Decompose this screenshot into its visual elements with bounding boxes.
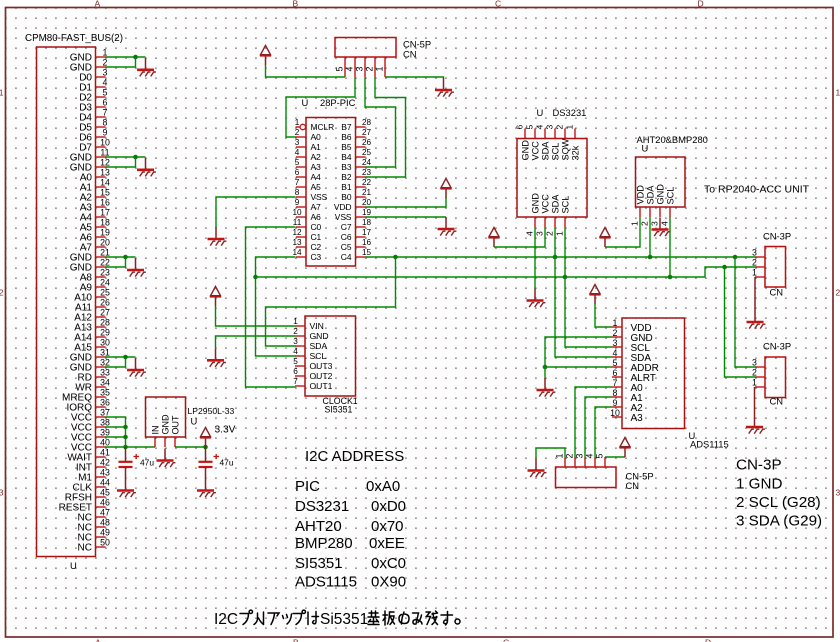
wire ADS1115 A1 to CN-5P pin3 [585, 397, 612, 457]
svg-text:B1: B1 [341, 182, 352, 192]
svg-text:47: 47 [100, 508, 110, 518]
power 3.3V at PIC VDD [440, 179, 451, 199]
svg-text:1 GND: 1 GND [736, 476, 782, 493]
wire CN-5P bottom pin5 to 3.3V [605, 456, 625, 458]
wire SI5351 GND to ground [216, 336, 296, 348]
svg-text:SDA: SDA [645, 185, 655, 205]
svg-text:1: 1 [836, 88, 840, 98]
svg-text:1: 1 [295, 118, 300, 127]
svg-text:A7: A7 [311, 202, 322, 212]
svg-text:36: 36 [100, 398, 110, 408]
svg-text:40: 40 [100, 438, 110, 448]
svg-text:37: 37 [100, 408, 110, 418]
svg-text:28P-PIC: 28P-PIC [320, 97, 356, 108]
svg-text:50: 50 [100, 538, 110, 548]
ground CN-3P upper pin1 [747, 310, 766, 329]
svg-text:5: 5 [525, 125, 535, 130]
svg-text:47u: 47u [220, 458, 234, 468]
LP2950 pin stubs [155, 437, 175, 447]
svg-text:5: 5 [595, 454, 605, 459]
ground PIC VSS pin8 [208, 227, 227, 246]
svg-text:5: 5 [103, 88, 108, 98]
svg-text:SDA: SDA [550, 194, 560, 214]
ground GND pins 21-22 [127, 258, 146, 277]
svg-text:1: 1 [565, 125, 575, 130]
svg-text:CN-3P: CN-3P [763, 341, 791, 352]
svg-text:22: 22 [362, 178, 372, 187]
svg-text:DS3231: DS3231 [295, 498, 349, 515]
svg-text:B5: B5 [341, 142, 352, 152]
svg-text:8: 8 [103, 118, 108, 128]
svg-text:11: 11 [293, 218, 302, 227]
svg-text:A5: A5 [311, 182, 322, 192]
svg-text:16: 16 [100, 198, 110, 208]
svg-text:2: 2 [752, 258, 757, 268]
svg-text:GND: GND [520, 140, 530, 161]
svg-text:B3: B3 [341, 162, 352, 172]
svg-text:32k: 32k [570, 145, 580, 160]
svg-text:CN: CN [770, 396, 784, 407]
svg-text:23: 23 [100, 268, 110, 278]
wire SDA bus [366, 256, 756, 258]
ground CN-5P top pin1 [435, 78, 454, 97]
svg-text:7: 7 [103, 108, 108, 118]
junction OUT 3.3V [203, 445, 208, 450]
svg-text:A6: A6 [311, 212, 322, 222]
wire CN-5P pin1 to ground [385, 77, 444, 78]
svg-text:VDD: VDD [635, 185, 645, 205]
wire junction to ground [544, 367, 546, 378]
ground ADS1115 GND/ADDR [537, 378, 556, 397]
wire pin32 GND up to junction [106, 357, 126, 367]
wire PIC VSS pin8 to ground [216, 197, 296, 227]
wire 3.3V to AHT20 VDD [605, 217, 640, 247]
svg-text:1: 1 [752, 378, 757, 388]
power 3.3V at SI5351 VIN [210, 287, 221, 307]
junction SDA to lower CN-3P [733, 255, 738, 260]
svg-text:4: 4 [535, 125, 545, 130]
svg-text:3: 3 [613, 338, 618, 348]
svg-text:13: 13 [292, 238, 302, 247]
svg-text:IN: IN [150, 426, 160, 435]
svg-text:14: 14 [100, 178, 110, 188]
svg-text:SI5351: SI5351 [325, 405, 353, 415]
junction SCL to lower CN-3P [722, 265, 727, 270]
wire SDA to CN-3P lower pin3 [735, 257, 755, 367]
svg-text:43: 43 [100, 468, 110, 478]
svg-text:GND: GND [530, 193, 540, 214]
wire ADS1115 A0 to CN-5P pin2 [575, 387, 612, 457]
ground input cap [117, 479, 136, 498]
svg-text:GND: GND [160, 414, 170, 435]
svg-text:C2: C2 [311, 242, 322, 252]
wire CN-5P pin3 to PIC B3 [365, 77, 396, 167]
svg-text:6: 6 [515, 125, 525, 130]
wire PIC VSS pin19 to ground [366, 216, 447, 218]
svg-text:SDA: SDA [310, 341, 328, 351]
svg-text:C7: C7 [341, 222, 352, 232]
svg-text:26: 26 [362, 138, 372, 147]
svg-text:2: 2 [555, 125, 565, 130]
svg-text:4: 4 [293, 347, 298, 356]
svg-text:19: 19 [100, 228, 110, 238]
svg-text:24: 24 [362, 158, 372, 167]
svg-text:6: 6 [103, 98, 108, 108]
svg-text:2: 2 [545, 231, 555, 236]
svg-text:U: U [302, 97, 309, 108]
regulator U LP2950L-33 [146, 397, 186, 437]
svg-text:A2: A2 [311, 152, 322, 162]
svg-text:CN-3P: CN-3P [736, 457, 782, 474]
svg-text:A0: A0 [311, 132, 322, 142]
U CPM80 pins 1-50 (stubs, numbers, names) [59, 48, 110, 554]
svg-text:SDA: SDA [540, 141, 550, 161]
wire 3.3V to CN-5P pin5 [266, 65, 346, 77]
svg-text:12: 12 [292, 228, 302, 237]
wire 3.3V to DS3231 VCC [494, 227, 545, 247]
svg-text:2: 2 [752, 368, 757, 378]
junction SDA at x395 [393, 255, 398, 260]
svg-text:42: 42 [100, 458, 110, 468]
svg-text:D: D [698, 0, 704, 9]
svg-text:BMP280: BMP280 [295, 535, 353, 552]
svg-text:3: 3 [752, 358, 757, 368]
svg-text:26: 26 [100, 298, 110, 308]
ground GND pins 11-12 [137, 158, 156, 177]
power 3.3V at CN-5P top [260, 46, 271, 66]
wire CN-5P pin2 to PIC B2 [366, 77, 406, 177]
ground GND pins 31-32 [127, 358, 146, 377]
svg-text:OUT1: OUT1 [310, 381, 333, 391]
svg-text:10: 10 [292, 208, 302, 217]
svg-text:2: 2 [640, 221, 650, 226]
junction SCL bus start [253, 275, 258, 280]
svg-text:1: 1 [555, 454, 565, 459]
CN-3P upper pins 3,2,1 [752, 248, 765, 278]
wire pin21 GND to ground [106, 256, 136, 258]
ground LP2950 GND pin [157, 449, 176, 468]
svg-text:12: 12 [100, 158, 110, 168]
IC U ADS1115 [622, 318, 685, 429]
wire SDA bus to ADS1115 SDA [555, 257, 612, 357]
svg-text:5: 5 [293, 357, 298, 366]
svg-text:NC: NC [78, 543, 92, 554]
CN-3P lower pins 3,2,1 [752, 358, 765, 388]
wire pin11 GND to ground [106, 156, 146, 158]
svg-text:I2C: I2C [214, 611, 238, 628]
svg-text:2: 2 [613, 328, 618, 338]
wire pin12 GND up to junction [106, 157, 136, 167]
svg-text:U: U [70, 560, 77, 571]
ground output cap [197, 479, 216, 498]
svg-text:0X90: 0X90 [371, 574, 406, 591]
svg-text:OUT2: OUT2 [310, 371, 333, 381]
junction pins31-32 GND [123, 355, 128, 360]
text I2C ADDRESS table [295, 448, 406, 591]
svg-text:B0: B0 [341, 192, 352, 202]
power 3.3V at CN-5P bottom [619, 438, 630, 458]
U PIC right pins 28-15 [334, 118, 372, 262]
svg-text:A4: A4 [311, 172, 322, 182]
wire VCC pin39 [106, 436, 126, 438]
svg-text:9: 9 [613, 398, 618, 408]
svg-text:OUT: OUT [170, 415, 180, 435]
U PIC left pins 1-14 [292, 118, 334, 262]
svg-text:CN: CN [626, 480, 640, 491]
svg-text:4: 4 [585, 454, 595, 459]
svg-text:1: 1 [613, 318, 618, 328]
svg-text:45: 45 [100, 488, 110, 498]
svg-text:AHT20: AHT20 [295, 518, 342, 535]
junction AHT20 SDA [648, 255, 653, 260]
svg-text:27: 27 [100, 308, 110, 318]
ground SI5351 GND [207, 348, 226, 367]
wire CN-5P bottom pin1 to ground [536, 448, 565, 459]
connector CN CN-5P top [335, 38, 396, 58]
svg-text:20: 20 [100, 238, 110, 248]
svg-text:4: 4 [613, 348, 618, 358]
svg-text:B6: B6 [341, 132, 352, 142]
svg-text:13: 13 [100, 168, 110, 178]
svg-text:LP2950L-33: LP2950L-33 [188, 406, 235, 416]
svg-text:3: 3 [295, 138, 300, 147]
svg-text:6: 6 [293, 367, 298, 376]
svg-text:18: 18 [100, 218, 110, 228]
wire ADS1115 GND down [545, 337, 612, 367]
wire CN-3P lower pin1 to ground [754, 387, 756, 415]
svg-text:17: 17 [100, 208, 110, 218]
svg-text:A1: A1 [311, 142, 322, 152]
power 3.3V at DS3231 VCC [488, 228, 499, 248]
svg-text:B2: B2 [341, 172, 352, 182]
svg-text:14: 14 [292, 248, 302, 257]
svg-text:2: 2 [836, 288, 840, 298]
svg-text:0xA0: 0xA0 [366, 478, 400, 495]
svg-text:SCL: SCL [560, 196, 570, 214]
wire pin2 GND up to junction [106, 57, 136, 67]
svg-text:39: 39 [100, 428, 110, 438]
svg-text:27: 27 [362, 128, 372, 137]
junction AHT20 SCL [668, 275, 673, 280]
svg-text:7: 7 [293, 377, 298, 386]
svg-text:0x70: 0x70 [371, 518, 404, 535]
CN-5P top pin stubs and numbers [335, 57, 386, 77]
svg-text:19: 19 [362, 208, 372, 217]
svg-text:4: 4 [103, 78, 108, 88]
svg-text:U: U [537, 107, 544, 118]
svg-text:4: 4 [295, 148, 300, 157]
svg-text:To RP2040-ACC UNIT: To RP2040-ACC UNIT [704, 184, 810, 196]
svg-text:3: 3 [545, 125, 555, 130]
wire SDA to SI5351 SDA [266, 257, 396, 346]
svg-text:1: 1 [0, 88, 4, 98]
svg-text:CN: CN [770, 287, 784, 298]
svg-text:C: C [495, 0, 501, 9]
svg-text:3: 3 [836, 488, 840, 498]
svg-text:D: D [705, 638, 711, 642]
svg-text:10: 10 [610, 408, 620, 418]
svg-text:4: 4 [660, 221, 670, 226]
svg-text:25: 25 [100, 288, 110, 298]
svg-text:4: 4 [525, 231, 535, 236]
text CN-3P pinout legend [736, 457, 822, 530]
wire DS3231 SCL to bus [564, 227, 566, 277]
svg-text:0xD0: 0xD0 [371, 498, 406, 515]
power 3.3V at regulator output [200, 428, 211, 448]
svg-text:3: 3 [535, 231, 545, 236]
svg-text:22: 22 [100, 258, 110, 268]
wire SCL bus to ADS1115 SCL [565, 277, 612, 347]
svg-text:1: 1 [375, 67, 385, 72]
junction VCC rail 2 [123, 435, 128, 440]
svg-text:PIC: PIC [295, 478, 320, 495]
wire PIC C0 to SI5351 OUT1 [246, 227, 296, 387]
svg-text:2: 2 [0, 288, 4, 298]
wire CN-5P pin4 to PIC A0 [286, 77, 355, 137]
svg-text:ADS1115: ADS1115 [690, 439, 729, 450]
DS3231 bottom pins 4-1 [525, 193, 571, 236]
svg-text:VSS: VSS [335, 212, 352, 222]
svg-text:CN: CN [403, 49, 417, 60]
svg-text:23: 23 [362, 168, 372, 177]
wire pin31 GND to ground [106, 356, 136, 358]
svg-text:5: 5 [335, 67, 345, 72]
svg-text:2: 2 [565, 454, 575, 459]
svg-text:38: 38 [100, 418, 110, 428]
ground GND pins 1-2 [137, 58, 156, 77]
svg-text:48: 48 [100, 518, 110, 528]
svg-text:8: 8 [295, 188, 300, 197]
svg-text:MCLR: MCLR [311, 122, 335, 132]
svg-text:35: 35 [100, 388, 110, 398]
wire SCL to CN-3P lower pin2 [725, 267, 756, 377]
svg-text:21: 21 [100, 248, 110, 258]
svg-text:DS3231: DS3231 [553, 107, 587, 118]
svg-text:U: U [642, 143, 649, 154]
svg-text:4: 4 [345, 67, 355, 72]
svg-text:18: 18 [362, 218, 372, 227]
svg-text:16: 16 [362, 238, 372, 247]
ground CN-5P bottom pin1 [528, 459, 547, 478]
capacitor C 47u output [199, 447, 220, 479]
svg-text:10: 10 [100, 138, 110, 148]
wire pin22 GND up to junction [106, 257, 126, 267]
svg-text:OUT3: OUT3 [310, 361, 333, 371]
svg-text:GND: GND [655, 184, 665, 205]
svg-text:41: 41 [100, 448, 110, 458]
svg-text:VSS: VSS [311, 192, 328, 202]
svg-text:7: 7 [613, 378, 618, 388]
svg-text:34: 34 [100, 378, 110, 388]
svg-text:1: 1 [103, 48, 108, 58]
svg-text:B: B [293, 0, 299, 9]
ground PIC VSS pin19 [438, 217, 457, 236]
svg-text:2 SCL (G28): 2 SCL (G28) [736, 494, 821, 511]
svg-text:3: 3 [355, 67, 365, 72]
svg-text:B4: B4 [341, 152, 352, 162]
connector CN CN-5P bottom [556, 467, 617, 488]
svg-text:3.3V: 3.3V [215, 425, 236, 436]
svg-text:I2C ADDRESS: I2C ADDRESS [305, 448, 404, 465]
note I2C pullup only on Si5351 board (Japanese) [214, 610, 460, 628]
svg-text:2: 2 [365, 67, 375, 72]
wire CN-3P upper pin1 to ground [754, 277, 756, 310]
wire 3.3V to PIC VDD pin20 [366, 198, 447, 207]
svg-text:46: 46 [100, 498, 110, 508]
svg-text:SI5351: SI5351 [295, 555, 343, 572]
svg-text:24: 24 [100, 278, 110, 288]
ground AHT20 GND [652, 218, 671, 237]
svg-text:31: 31 [100, 348, 110, 358]
CLOCK1 pins 1-7 [293, 317, 332, 391]
wire AHT20 SDA to bus [649, 217, 651, 257]
junction pins1-2 GND [133, 55, 138, 60]
wire 3.3V to ADS1115 VDD [595, 304, 612, 327]
wire ADS1115 ADDR to GND [545, 366, 612, 368]
junction DS3231 SCL [563, 275, 568, 280]
svg-text:33: 33 [100, 368, 110, 378]
svg-text:3: 3 [0, 488, 4, 498]
svg-text:20: 20 [362, 198, 372, 207]
svg-text:5: 5 [295, 158, 300, 167]
svg-text:GND: GND [310, 331, 329, 341]
svg-text:0xC0: 0xC0 [371, 555, 406, 572]
svg-text:9: 9 [103, 128, 108, 138]
svg-text:11: 11 [100, 148, 109, 158]
svg-text:2: 2 [103, 58, 108, 68]
svg-text:Si5351: Si5351 [320, 611, 368, 628]
svg-text:5: 5 [613, 358, 618, 368]
svg-text:15: 15 [362, 248, 372, 257]
wire SCL bus [256, 267, 756, 277]
wire LP2950 OUT to 3.3V [175, 446, 206, 448]
junction pins21-22 GND [123, 255, 128, 260]
wire VCC pin38 [106, 426, 126, 428]
svg-text:1: 1 [293, 317, 298, 326]
ground CN-3P lower pin1 [746, 415, 765, 434]
svg-text:6: 6 [295, 168, 300, 177]
svg-text:CN-3P: CN-3P [763, 231, 791, 242]
module CLOCK1 SI5351 [305, 316, 356, 396]
svg-text:VDD: VDD [334, 202, 352, 212]
svg-text:47u: 47u [140, 458, 154, 468]
svg-text:C4: C4 [341, 252, 352, 262]
junction VCC rail 3 [123, 445, 128, 450]
svg-text:VCC: VCC [540, 194, 550, 214]
svg-text:A3: A3 [311, 162, 322, 172]
power 3.3V at AHT20 VDD [599, 228, 610, 248]
svg-text:2: 2 [295, 128, 300, 137]
svg-text:A: A [95, 0, 101, 9]
svg-text:1: 1 [630, 221, 640, 226]
junction ADS GND-ADDR [543, 365, 548, 370]
capacitor C 47u input [119, 447, 140, 479]
wire AHT20 SCL to bus [669, 217, 671, 277]
ADS1115 pins 1-10 [610, 318, 659, 424]
svg-text:A: A [95, 638, 101, 642]
svg-text:3: 3 [293, 337, 298, 346]
svg-text:C5: C5 [341, 242, 352, 252]
ground DS3231 GND [527, 289, 546, 308]
svg-text:VCC: VCC [530, 141, 540, 161]
power 3.3V at ADS1115 VDD [589, 285, 600, 305]
svg-text:C3: C3 [311, 252, 322, 262]
svg-text:C: C [503, 638, 509, 642]
wire DS3231 GND to ground [534, 227, 536, 289]
svg-text:0xEE: 0xEE [369, 535, 405, 552]
svg-text:44: 44 [100, 478, 110, 488]
junction pins11-12 GND [133, 155, 138, 160]
